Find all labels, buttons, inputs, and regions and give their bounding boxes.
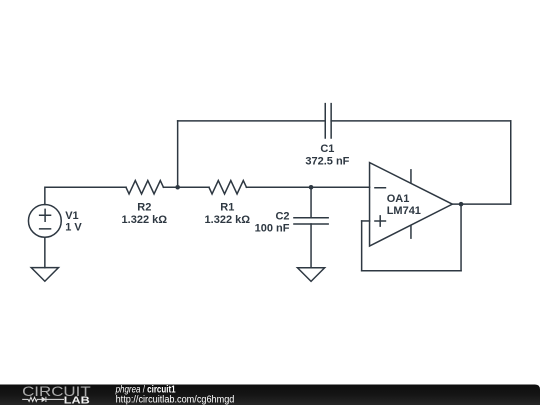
- svg-text:LAB: LAB: [64, 395, 91, 405]
- op-amp U1 triangle: [370, 163, 453, 247]
- capacitor C2: [294, 218, 328, 224]
- op-amp non-inverting input plus mark: [375, 216, 386, 226]
- svg-text:R1: R1: [220, 202, 234, 214]
- junction output node: [459, 202, 464, 207]
- logo resistor-diode squiggle: [22, 397, 64, 402]
- wire C1 to top-right corner: [331, 120, 511, 122]
- svg-text:1.322 kΩ: 1.322 kΩ: [122, 214, 168, 226]
- svg-text:C1: C1: [320, 143, 334, 155]
- op-amp positive supply pin: [410, 170, 412, 183]
- wire node B down to C2: [310, 187, 312, 218]
- capacitor C1: [325, 104, 331, 138]
- resistor R2: [126, 181, 164, 194]
- wire V1 bottom to ground: [44, 237, 46, 267]
- svg-text:1.322 kΩ: 1.322 kΩ: [205, 214, 251, 226]
- svg-text:V1: V1: [65, 210, 78, 222]
- wire op-amp output: [452, 203, 510, 205]
- svg-text:C2: C2: [275, 210, 289, 222]
- svg-text:100 nF: 100 nF: [255, 223, 290, 235]
- logo diode triangle: [42, 397, 46, 403]
- svg-text:http://circuitlab.com/cg6hmgd: http://circuitlab.com/cg6hmgd: [116, 394, 235, 405]
- voltage source V1: [28, 204, 61, 237]
- svg-text:LM741: LM741: [387, 205, 421, 217]
- op-amp inverting input minus mark: [375, 187, 386, 189]
- ground below V1: [31, 268, 58, 282]
- wire wrap bottom: [362, 270, 461, 272]
- ground below C2: [297, 268, 324, 282]
- wire wrap left up: [361, 221, 363, 271]
- resistor R1: [209, 181, 247, 194]
- wire V1 top to main: [45, 187, 126, 204]
- V1 plus sign: [40, 209, 51, 221]
- wire R2 to node A: [163, 186, 177, 188]
- wire node B to op-amp inverting input: [311, 186, 370, 188]
- svg-text:372.5 nF: 372.5 nF: [305, 156, 349, 168]
- wire right side down to output: [510, 121, 512, 204]
- wire R1 to node B: [246, 186, 311, 188]
- wire node A to R1: [178, 186, 209, 188]
- wire feedback riser from node A: [177, 121, 179, 187]
- wire output node down: [460, 204, 462, 271]
- wire feedback top-left to C1: [178, 120, 326, 122]
- wire C2 to ground: [310, 224, 312, 268]
- svg-text:OA1: OA1: [387, 193, 410, 205]
- V1 minus sign: [40, 228, 51, 230]
- op-amp negative supply pin: [410, 226, 412, 239]
- svg-text:1 V: 1 V: [65, 222, 82, 234]
- junction node A: [175, 185, 180, 190]
- wire wrap to non-inverting input: [362, 220, 370, 222]
- junction node B: [309, 185, 314, 190]
- svg-text:R2: R2: [137, 202, 151, 214]
